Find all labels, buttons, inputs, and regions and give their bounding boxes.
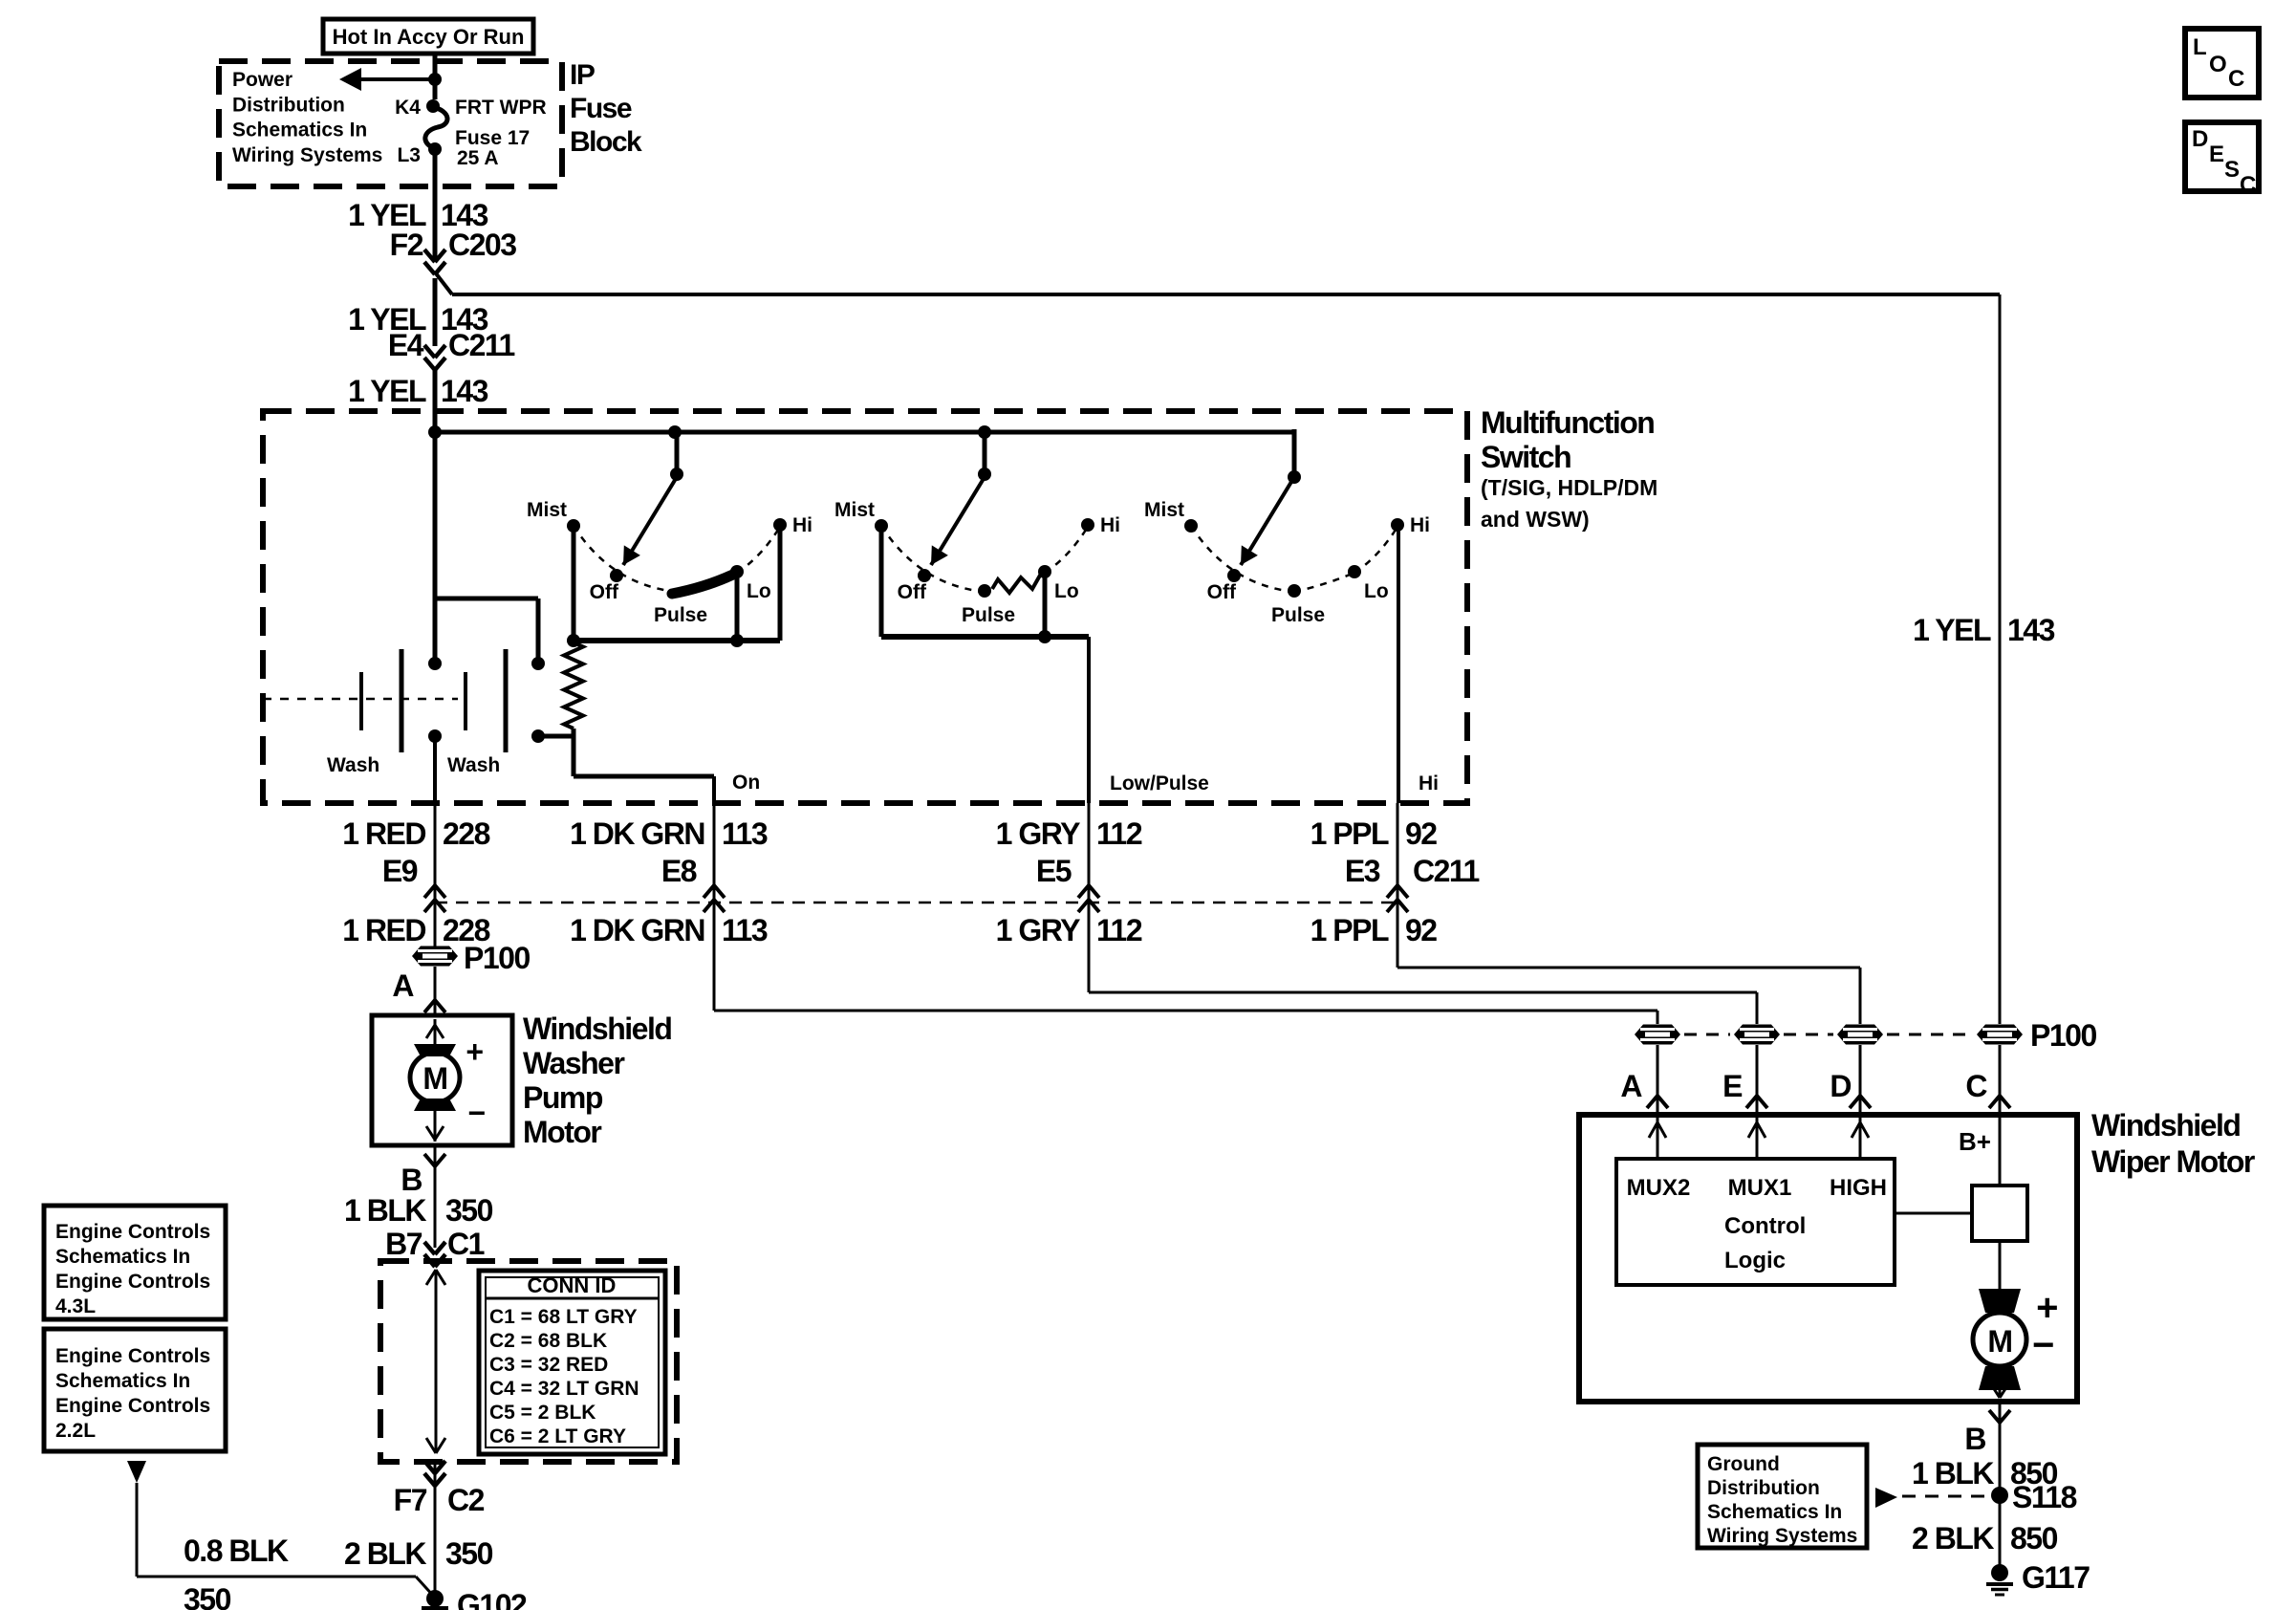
svg-text:P100: P100 bbox=[2030, 1018, 2096, 1053]
svg-text:Schematics In: Schematics In bbox=[1707, 1501, 1842, 1523]
svg-text:143: 143 bbox=[2007, 613, 2055, 647]
svg-text:E: E bbox=[2209, 141, 2224, 167]
svg-text:112: 112 bbox=[1096, 913, 1142, 947]
svg-text:F7: F7 bbox=[394, 1483, 427, 1517]
svg-text:Pulse: Pulse bbox=[654, 604, 707, 626]
svg-text:350: 350 bbox=[445, 1193, 493, 1228]
svg-text:Motor: Motor bbox=[523, 1115, 601, 1149]
svg-text:S118: S118 bbox=[2012, 1480, 2077, 1514]
svg-text:IP: IP bbox=[570, 59, 595, 91]
svg-text:350: 350 bbox=[445, 1536, 493, 1571]
svg-text:HIGH: HIGH bbox=[1830, 1175, 1887, 1201]
svg-text:92: 92 bbox=[1405, 816, 1437, 851]
svg-text:Hi: Hi bbox=[792, 514, 812, 536]
svg-text:Fuse: Fuse bbox=[570, 93, 632, 124]
svg-text:Wiper Motor: Wiper Motor bbox=[2091, 1144, 2255, 1179]
svg-text:112: 112 bbox=[1096, 816, 1142, 851]
svg-text:113: 113 bbox=[722, 816, 768, 851]
svg-text:4.3L: 4.3L bbox=[55, 1295, 96, 1317]
svg-text:Block: Block bbox=[570, 126, 642, 158]
svg-text:M: M bbox=[1987, 1324, 2011, 1359]
svg-text:Lo: Lo bbox=[747, 580, 771, 602]
svg-text:B+: B+ bbox=[1959, 1127, 1991, 1156]
svg-text:M: M bbox=[422, 1061, 446, 1096]
svg-text:Wiring Systems: Wiring Systems bbox=[1707, 1525, 1857, 1547]
svg-text:−: − bbox=[2032, 1324, 2053, 1366]
svg-text:O: O bbox=[2209, 52, 2227, 77]
svg-text:C203: C203 bbox=[448, 228, 516, 262]
svg-text:Wash: Wash bbox=[447, 754, 500, 776]
svg-text:Mist: Mist bbox=[527, 499, 567, 521]
svg-text:350: 350 bbox=[184, 1582, 231, 1610]
svg-text:Engine Controls: Engine Controls bbox=[55, 1345, 210, 1367]
svg-text:Pulse: Pulse bbox=[1271, 604, 1325, 626]
svg-text:S: S bbox=[2224, 157, 2240, 183]
svg-text:2 BLK: 2 BLK bbox=[1912, 1521, 1994, 1556]
svg-text:+: + bbox=[466, 1034, 483, 1069]
svg-text:Schematics In: Schematics In bbox=[232, 120, 367, 141]
svg-text:G117: G117 bbox=[2022, 1560, 2090, 1595]
svg-text:Wiring Systems: Wiring Systems bbox=[232, 144, 382, 166]
svg-text:C5 = 2 BLK: C5 = 2 BLK bbox=[489, 1402, 596, 1424]
svg-text:1 BLK: 1 BLK bbox=[344, 1193, 426, 1228]
svg-text:1 GRY: 1 GRY bbox=[996, 816, 1081, 851]
svg-text:Distribution: Distribution bbox=[232, 94, 345, 116]
svg-text:E8: E8 bbox=[661, 854, 697, 888]
svg-text:E3: E3 bbox=[1345, 854, 1380, 888]
svg-text:D: D bbox=[2192, 126, 2208, 152]
svg-text:1 PPL: 1 PPL bbox=[1310, 816, 1389, 851]
svg-text:−: − bbox=[467, 1096, 485, 1130]
svg-text:1 YEL: 1 YEL bbox=[348, 374, 426, 408]
svg-text:1 RED: 1 RED bbox=[342, 913, 425, 947]
svg-text:C211: C211 bbox=[1413, 854, 1479, 888]
svg-text:E: E bbox=[1722, 1069, 1743, 1103]
svg-text:G102: G102 bbox=[457, 1588, 527, 1610]
svg-text:Off: Off bbox=[898, 581, 927, 603]
svg-text:Windshield: Windshield bbox=[523, 1012, 671, 1046]
svg-text:Schematics In: Schematics In bbox=[55, 1370, 190, 1392]
svg-text:B: B bbox=[401, 1163, 422, 1197]
svg-text:2.2L: 2.2L bbox=[55, 1420, 96, 1442]
svg-text:C4 = 32 LT GRN: C4 = 32 LT GRN bbox=[489, 1378, 639, 1400]
svg-text:CONN ID: CONN ID bbox=[528, 1273, 617, 1297]
svg-text:K4: K4 bbox=[395, 97, 421, 119]
svg-text:C2 = 68 BLK: C2 = 68 BLK bbox=[489, 1330, 607, 1352]
svg-text:A: A bbox=[1620, 1069, 1642, 1103]
svg-text:Logic: Logic bbox=[1724, 1248, 1786, 1273]
svg-text:E9: E9 bbox=[382, 854, 418, 888]
svg-text:MUX1: MUX1 bbox=[1728, 1175, 1792, 1201]
svg-text:Wash: Wash bbox=[327, 754, 379, 776]
svg-text:Mist: Mist bbox=[1144, 499, 1184, 521]
svg-text:D: D bbox=[1830, 1069, 1851, 1103]
svg-text:B: B bbox=[1964, 1422, 1985, 1456]
svg-text:Engine Controls: Engine Controls bbox=[55, 1221, 210, 1243]
svg-text:Hi: Hi bbox=[1410, 514, 1430, 536]
svg-text:L: L bbox=[2193, 34, 2207, 60]
svg-text:C3 = 32 RED: C3 = 32 RED bbox=[489, 1354, 608, 1376]
svg-text:and WSW): and WSW) bbox=[1481, 507, 1590, 532]
svg-text:Engine Controls: Engine Controls bbox=[55, 1395, 210, 1417]
svg-text:C1 = 68 LT GRY: C1 = 68 LT GRY bbox=[489, 1306, 638, 1328]
svg-text:1 DK GRN: 1 DK GRN bbox=[570, 913, 704, 947]
svg-text:92: 92 bbox=[1405, 913, 1437, 947]
svg-text:A: A bbox=[392, 968, 414, 1003]
svg-text:+: + bbox=[2036, 1287, 2057, 1329]
svg-text:1 DK GRN: 1 DK GRN bbox=[570, 816, 704, 851]
svg-text:Hot In Accy Or Run: Hot In Accy Or Run bbox=[333, 25, 525, 49]
svg-text:E4: E4 bbox=[388, 328, 424, 362]
svg-text:Windshield: Windshield bbox=[2091, 1108, 2240, 1142]
svg-text:1 PPL: 1 PPL bbox=[1310, 913, 1389, 947]
svg-text:Hi: Hi bbox=[1100, 514, 1120, 536]
svg-text:C: C bbox=[2240, 172, 2256, 198]
svg-text:C211: C211 bbox=[448, 328, 514, 362]
svg-text:Hi: Hi bbox=[1419, 772, 1439, 794]
svg-text:Control: Control bbox=[1724, 1213, 1806, 1239]
svg-text:Lo: Lo bbox=[1054, 580, 1079, 602]
svg-text:C: C bbox=[2228, 66, 2244, 92]
svg-text:113: 113 bbox=[722, 913, 768, 947]
svg-text:850: 850 bbox=[2010, 1521, 2058, 1556]
svg-text:Multifunction: Multifunction bbox=[1481, 405, 1654, 440]
svg-text:Off: Off bbox=[1207, 581, 1237, 603]
svg-text:F2: F2 bbox=[390, 228, 423, 262]
svg-text:2 BLK: 2 BLK bbox=[344, 1536, 426, 1571]
svg-text:Off: Off bbox=[590, 581, 619, 603]
svg-text:FRT WPR: FRT WPR bbox=[455, 97, 547, 119]
svg-text:B7: B7 bbox=[385, 1227, 422, 1261]
svg-text:C1: C1 bbox=[447, 1227, 485, 1261]
svg-text:Distribution: Distribution bbox=[1707, 1477, 1820, 1499]
svg-text:143: 143 bbox=[441, 374, 488, 408]
svg-text:25 A: 25 A bbox=[457, 147, 499, 169]
svg-text:1 GRY: 1 GRY bbox=[996, 913, 1081, 947]
svg-text:Schematics In: Schematics In bbox=[55, 1246, 190, 1268]
svg-text:C: C bbox=[1965, 1069, 1987, 1103]
svg-text:228: 228 bbox=[443, 816, 490, 851]
svg-text:1 BLK: 1 BLK bbox=[1912, 1456, 1994, 1490]
svg-text:Low/Pulse: Low/Pulse bbox=[1110, 772, 1209, 794]
svg-text:1 RED: 1 RED bbox=[342, 816, 425, 851]
svg-text:E5: E5 bbox=[1036, 854, 1072, 888]
svg-text:C2: C2 bbox=[447, 1483, 485, 1517]
svg-text:0.8 BLK: 0.8 BLK bbox=[184, 1534, 289, 1568]
svg-text:Pulse: Pulse bbox=[962, 604, 1015, 626]
svg-text:Power: Power bbox=[232, 69, 292, 91]
svg-text:Engine Controls: Engine Controls bbox=[55, 1271, 210, 1293]
svg-text:Washer: Washer bbox=[523, 1046, 624, 1080]
svg-text:Fuse 17: Fuse 17 bbox=[455, 127, 530, 149]
svg-text:Pump: Pump bbox=[523, 1080, 603, 1115]
svg-text:1 YEL: 1 YEL bbox=[1913, 613, 1991, 647]
svg-text:On: On bbox=[732, 772, 760, 794]
svg-text:Switch: Switch bbox=[1481, 440, 1570, 474]
svg-text:Lo: Lo bbox=[1364, 580, 1389, 602]
svg-text:C6 = 2 LT GRY: C6 = 2 LT GRY bbox=[489, 1425, 626, 1447]
svg-text:Ground: Ground bbox=[1707, 1453, 1780, 1475]
svg-text:L3: L3 bbox=[397, 144, 421, 166]
svg-text:MUX2: MUX2 bbox=[1627, 1175, 1691, 1201]
svg-text:(T/SIG, HDLP/DM: (T/SIG, HDLP/DM bbox=[1481, 475, 1657, 500]
svg-text:Mist: Mist bbox=[834, 499, 875, 521]
svg-text:P100: P100 bbox=[464, 941, 530, 975]
